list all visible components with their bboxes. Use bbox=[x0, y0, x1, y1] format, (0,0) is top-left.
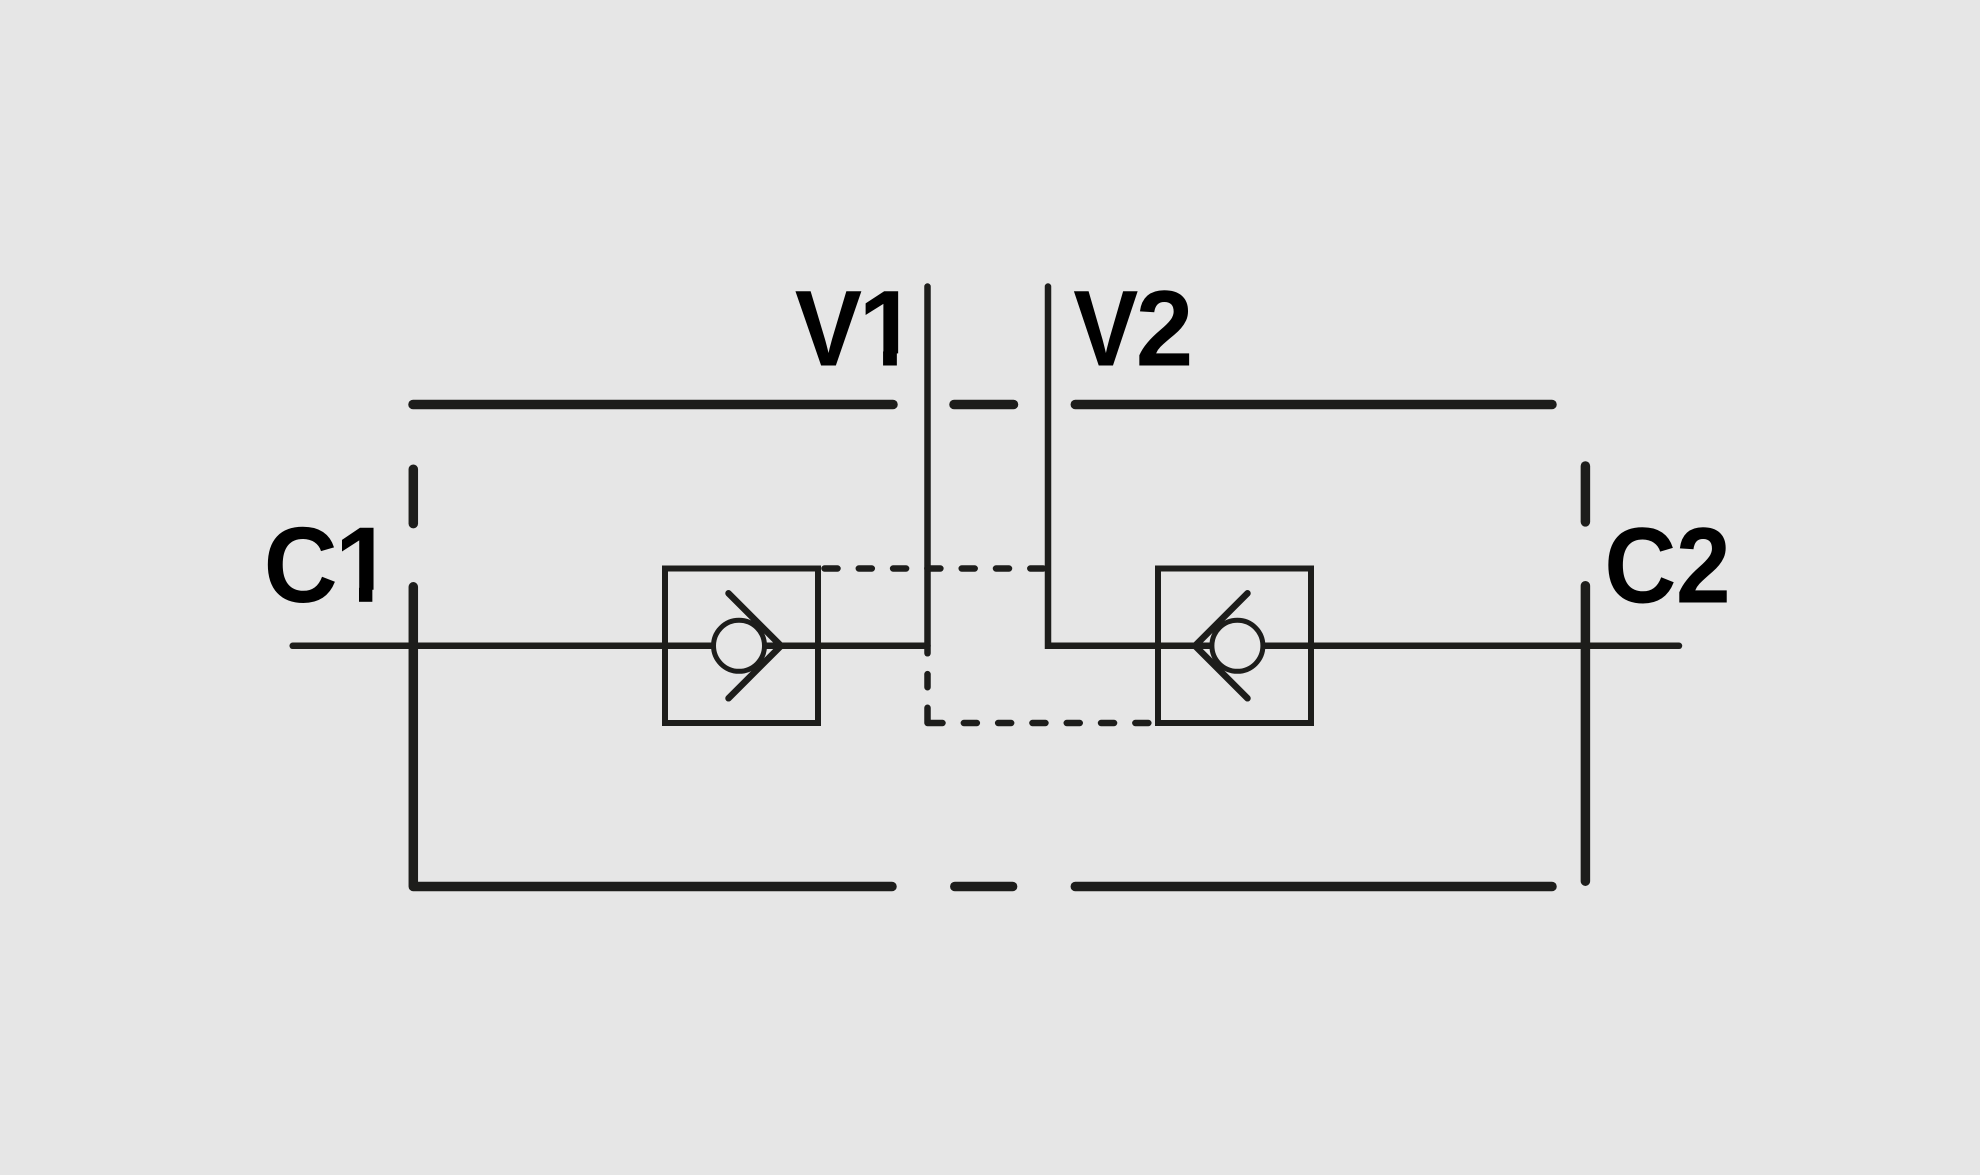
check valve CV2 square bbox=[1158, 569, 1311, 724]
check valve CV2 ball bbox=[1212, 620, 1263, 671]
pilot line to CV2 dashed bbox=[964, 720, 1155, 727]
port V2 line with corner to CV2 bbox=[1048, 287, 1158, 646]
pilot line from CV1 to V2 dashed bbox=[825, 565, 1046, 572]
svg-text:1: 1 bbox=[858, 267, 918, 388]
pilot line node A vertical dash bbox=[924, 674, 931, 687]
check valve CV1 seat bbox=[729, 593, 782, 698]
svg-text:C: C bbox=[264, 506, 338, 626]
enclosure left border upper dash bbox=[409, 469, 419, 523]
svg-text:1: 1 bbox=[335, 505, 393, 625]
svg-text:V: V bbox=[1073, 268, 1138, 389]
pilot line node A corner dash bbox=[928, 708, 943, 723]
enclosure top border left segment bbox=[413, 400, 893, 410]
svg-text:V: V bbox=[795, 268, 862, 389]
enclosure left border long segment with bottom-left corner bbox=[413, 587, 892, 887]
port V1 line bbox=[924, 287, 931, 654]
enclosure top border right segment bbox=[1075, 400, 1552, 410]
enclosure right border long segment bbox=[1581, 586, 1591, 882]
enclosure bottom border middle dash bbox=[955, 882, 1013, 892]
label C1 bbox=[264, 505, 396, 625]
label V2 bbox=[1073, 268, 1193, 389]
port C2 line from CV2 bbox=[1158, 643, 1679, 650]
svg-text:C: C bbox=[1604, 505, 1676, 625]
enclosure top border middle dash bbox=[954, 400, 1014, 410]
svg-text:2: 2 bbox=[1676, 505, 1731, 625]
enclosure right border upper dash bbox=[1581, 466, 1591, 522]
check valve CV1 square bbox=[665, 569, 818, 724]
svg-text:2: 2 bbox=[1136, 269, 1194, 389]
port C1 line to node A bbox=[293, 643, 928, 650]
label V1 bbox=[795, 267, 921, 389]
label C2 bbox=[1604, 505, 1730, 625]
enclosure bottom border right segment bbox=[1075, 882, 1552, 892]
check valve CV1 ball bbox=[714, 620, 765, 671]
check valve CV2 seat bbox=[1195, 593, 1248, 698]
